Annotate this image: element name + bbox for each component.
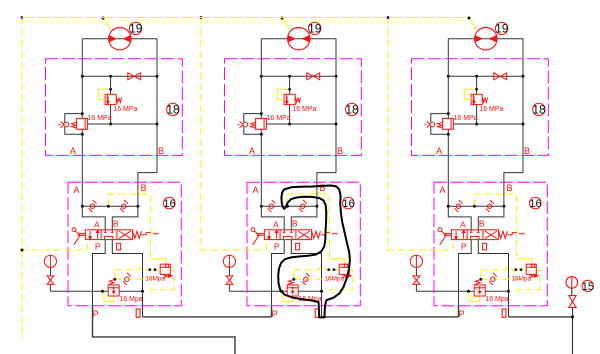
left yellow trunk lower extension	[21, 250, 23, 340]
revision cloud highlight	[278, 186, 350, 318]
wire unit1 P to tank	[93, 306, 236, 354]
svg-text:15: 15	[582, 281, 594, 293]
wire unit1 T to unit2 P	[143, 306, 272, 317]
hydraulic unit 2	[200, 16, 362, 319]
junction dot outlet	[571, 315, 574, 318]
gauge 15 shutoff X valve	[569, 296, 576, 308]
wire unit3 T to outlet	[509, 316, 573, 318]
hydraulic unit 1	[21, 16, 183, 319]
hydraulic unit 3	[387, 16, 549, 319]
pressure gauge 15	[566, 277, 578, 289]
top yellow pilot trunk	[22, 17, 468, 19]
wire gauge15 stem	[571, 288, 573, 295]
wire unit2 T to unit3 P	[322, 306, 459, 317]
junction dot trunk	[21, 249, 24, 252]
wire outlet down	[572, 308, 574, 354]
balloon 15	[582, 280, 593, 291]
